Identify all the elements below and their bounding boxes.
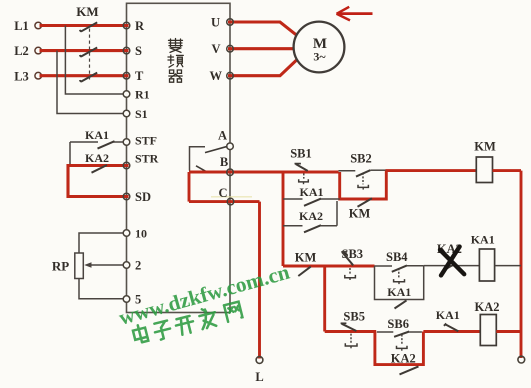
terminal L	[255, 357, 263, 384]
terminal N (bottom right)	[518, 356, 525, 363]
svg-text:STR: STR	[135, 151, 159, 165]
inverter terminal R	[123, 19, 145, 33]
scan artifact line near C	[211, 196, 252, 198]
RP wiper arrow from terminal 2	[89, 264, 123, 266]
svg-text:U: U	[211, 15, 220, 29]
svg-text:KA2: KA2	[85, 151, 109, 165]
svg-text:KA1: KA1	[387, 285, 411, 299]
contact arm at terminal A	[205, 146, 228, 152]
svg-text:KM: KM	[295, 250, 317, 264]
phase terminal L2	[14, 44, 41, 58]
inverter terminal T	[123, 69, 144, 83]
KM main contact pole 1	[80, 22, 97, 31]
svg-text:KM: KM	[76, 4, 98, 19]
svg-text:L2: L2	[14, 44, 29, 58]
svg-text:www.dzkfw.com.cn: www.dzkfw.com.cn	[116, 260, 292, 330]
pushbutton SB1 (NC stop)	[290, 147, 312, 185]
inverter terminal STR	[123, 151, 158, 168]
svg-text:KM: KM	[349, 207, 371, 221]
wire terminal 10 to RP top	[79, 233, 123, 253]
svg-text:L3: L3	[14, 69, 29, 83]
svg-text:T: T	[135, 69, 144, 83]
inverter terminal U	[211, 15, 233, 29]
wire W to motor (red)	[228, 60, 297, 76]
wire L3 to T (red)	[40, 74, 129, 77]
watermark www.dzkfw.com.cn	[116, 260, 292, 330]
inverter terminal S1	[123, 107, 147, 121]
svg-text:KA2: KA2	[475, 300, 500, 314]
pushbutton SB6 (NO)	[377, 317, 422, 351]
svg-text:SB2: SB2	[350, 152, 372, 166]
char 电	[132, 324, 148, 344]
char 器	[169, 70, 182, 82]
svg-text:KA2: KA2	[391, 351, 416, 365]
pushbutton SB4 (NO)	[375, 250, 424, 284]
char 开	[175, 315, 196, 335]
KM main contact pole 3	[80, 73, 97, 82]
wire STF branch	[70, 142, 123, 164]
wire B to C left leg (red)	[188, 172, 191, 202]
wire B row (red)	[189, 171, 339, 174]
svg-text:S1: S1	[135, 107, 148, 121]
svg-text:SD: SD	[135, 190, 151, 204]
KA2 contact arm	[92, 165, 108, 173]
coil KA2	[475, 300, 500, 345]
svg-text:SB1: SB1	[290, 147, 312, 161]
wire L2 to S (red)	[40, 49, 129, 52]
inverter terminal A	[218, 128, 233, 149]
KM main contact pole 2	[80, 48, 97, 57]
pushbutton SB3 (NC)	[341, 247, 363, 280]
node: left control rail (red)	[282, 172, 285, 266]
inverter terminal STF	[123, 133, 157, 147]
svg-text:R1: R1	[135, 87, 150, 101]
svg-text:KA1: KA1	[300, 185, 324, 199]
char 頻	[168, 55, 183, 67]
inverter terminal 5	[123, 292, 141, 306]
svg-text:S: S	[135, 44, 142, 58]
inverter terminal 10	[123, 226, 147, 240]
inverter terminal S	[123, 44, 142, 58]
svg-text:KA1: KA1	[85, 128, 109, 142]
svg-text:V: V	[212, 42, 221, 56]
svg-text:STF: STF	[135, 133, 157, 147]
inverter terminal 2	[123, 258, 141, 272]
inverter terminal R1	[123, 87, 149, 101]
svg-text:W: W	[210, 69, 223, 83]
wire top row to KM coil (red)	[386, 169, 478, 172]
wire V to motor (red)	[228, 47, 293, 50]
wire L1 to R (red)	[40, 24, 129, 27]
wire C row (red)	[189, 200, 260, 203]
svg-text:10: 10	[135, 226, 147, 240]
svg-text:C: C	[218, 186, 227, 200]
KA1 contact arm	[98, 141, 115, 148]
wire KA2 coil to right rail (red)	[496, 330, 521, 333]
svg-text:KA1: KA1	[436, 308, 460, 322]
wire KM self-hold loop (red)	[340, 171, 387, 199]
wire reverse row right (red)	[423, 330, 481, 333]
svg-text:A: A	[218, 128, 227, 142]
svg-text:KA1: KA1	[471, 232, 495, 246]
inverter terminal SD	[123, 190, 151, 204]
svg-text:L1: L1	[14, 19, 29, 33]
wire tap L1 to R1	[65, 26, 123, 95]
contact KA1 (interlock before KA2 coil)	[436, 308, 460, 331]
inverter box U1 变频器	[127, 3, 231, 312]
svg-text:KM: KM	[474, 139, 496, 153]
wire KA1 coil to right rail	[495, 265, 521, 267]
pushbutton SB5 (NC)	[341, 310, 365, 349]
node: right control rail (red)	[520, 171, 523, 358]
contact KA1 (self-hold)	[387, 285, 411, 309]
char 网	[224, 302, 243, 322]
char 變	[169, 39, 183, 53]
char 子	[153, 320, 172, 340]
label 变频器 (vertical Chinese text, drawn as strokes)	[168, 39, 183, 83]
inverter terminal B	[220, 155, 233, 176]
coil KM	[474, 139, 496, 182]
inverter terminal W	[210, 69, 234, 83]
phase terminal L3	[14, 69, 41, 83]
contact KM (aux, feeds relay branches)	[295, 250, 317, 276]
svg-text:L: L	[255, 370, 263, 384]
watermark 电子开发网 (drawn strokes)	[132, 300, 243, 346]
wire KM aux row (red)	[283, 265, 375, 268]
phase terminal L1	[14, 19, 41, 33]
motor M 3~	[294, 22, 345, 73]
wire STR to SD loop (red)	[68, 166, 129, 197]
wire KM coil to right rail (red)	[493, 169, 522, 172]
svg-text:B: B	[220, 155, 228, 169]
svg-text:R: R	[135, 19, 145, 33]
svg-text:3~: 3~	[313, 50, 326, 64]
contact KA2 (self-hold)	[391, 351, 419, 374]
wire KA1 self-hold loop	[375, 266, 424, 300]
wire RP bottom to terminal 5	[79, 279, 123, 299]
wire tap L2 to S1	[57, 51, 123, 114]
svg-text:SB4: SB4	[386, 250, 408, 264]
wire from A contact to B node	[190, 147, 206, 171]
contact KA2 (crossed out)	[437, 242, 464, 275]
contact KM (self-hold, NO)	[349, 198, 372, 220]
rotation arrow (red)	[337, 7, 373, 21]
inverter terminal V	[212, 42, 234, 56]
svg-text:SB6: SB6	[387, 317, 409, 331]
KM linkage dashed line	[89, 29, 91, 80]
svg-text:KA2: KA2	[299, 209, 323, 223]
wire U to motor (red)	[228, 22, 297, 35]
inverter terminal C	[218, 186, 233, 205]
contact KA2 (parallel run branch)	[283, 201, 337, 232]
contact arm at terminal B	[196, 166, 208, 173]
svg-text:RP: RP	[52, 259, 69, 274]
wire SB4 node to KA1 coil	[424, 265, 480, 267]
wire C to L terminal (red)	[258, 202, 261, 359]
char 发	[198, 306, 218, 329]
potentiometer RP body	[75, 253, 84, 279]
wire drop to reverse row (red)	[323, 266, 326, 332]
wire reverse row left (red)	[325, 330, 377, 333]
svg-text:2: 2	[135, 258, 141, 272]
pushbutton SB2 (NO start)	[339, 152, 387, 190]
svg-text:SB5: SB5	[343, 310, 365, 324]
wire KA2 self-hold loop (red)	[375, 332, 424, 365]
coil KA1	[471, 232, 495, 281]
contact KA1 (parallel run branch)	[283, 185, 340, 206]
